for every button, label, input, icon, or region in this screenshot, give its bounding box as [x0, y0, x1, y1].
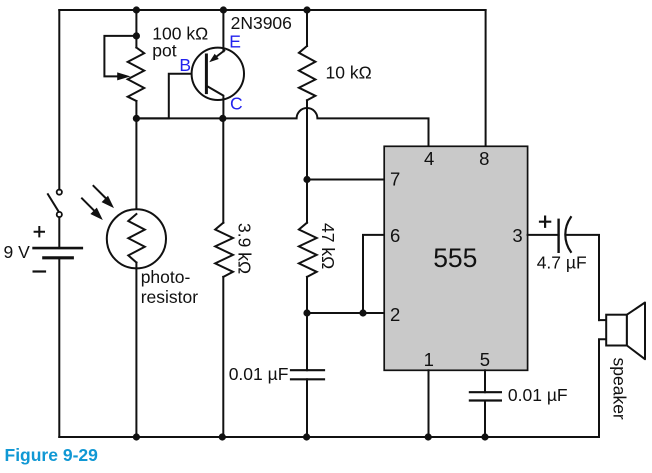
- node pin 2: [303, 309, 310, 316]
- svg-text:0.01 µF: 0.01 µF: [508, 385, 568, 405]
- pot wiper wire: [104, 36, 136, 77]
- potentiometer R1 100k zigzag: [128, 48, 145, 102]
- wire bottom rail: [59, 436, 599, 438]
- wire C3 to speaker: [567, 235, 599, 320]
- node bottom C2: [481, 433, 488, 440]
- battery plus sign: [35, 227, 44, 236]
- switch S1: [48, 190, 62, 218]
- wire pot bottom: [135, 101, 137, 118]
- svg-text:8: 8: [479, 148, 489, 169]
- wire switch to battery: [58, 217, 60, 248]
- speaker lower stub and wire to bottom rail: [599, 339, 606, 437]
- svg-text:47 kΩ: 47 kΩ: [318, 223, 338, 269]
- capacitor C3 4.7uF left plate: [557, 220, 559, 252]
- C3 plus sign: [540, 217, 550, 227]
- transistor Q1 2N3906 circle: [192, 48, 244, 100]
- node 10k top rail: [303, 6, 310, 13]
- capacitor C2 0.01uF plates: [470, 392, 501, 400]
- svg-text:photo-: photo-: [141, 267, 191, 287]
- battery 9V plates: [34, 248, 82, 258]
- svg-text:5: 5: [480, 349, 490, 370]
- wire emitter to top rail: [222, 10, 224, 51]
- speaker body rect: [606, 315, 627, 346]
- svg-text:resistor: resistor: [141, 287, 199, 307]
- wire 10k to pin7 junction: [306, 100, 308, 179]
- wire C1 to bottom rail: [306, 379, 308, 437]
- svg-text:0.01 µF: 0.01 µF: [229, 364, 289, 384]
- wire pin 7: [307, 179, 384, 181]
- node pot bottom base: [133, 115, 140, 122]
- svg-text:B: B: [179, 55, 191, 75]
- svg-text:1: 1: [424, 349, 434, 370]
- wire pin7 junction to 47k: [306, 180, 308, 223]
- wire pin 1: [428, 370, 430, 437]
- node pin 6 tie: [359, 309, 366, 316]
- node bottom 3.9k: [219, 433, 226, 440]
- wire base network: [136, 74, 205, 119]
- resistor R4 47k zigzag: [299, 223, 317, 277]
- svg-text:speaker: speaker: [610, 358, 630, 420]
- wire pin 6: [363, 235, 384, 313]
- svg-text:pot: pot: [152, 41, 176, 61]
- wire 3.9k to bottom rail: [222, 277, 224, 437]
- svg-text:7: 7: [390, 169, 400, 190]
- wire pin 5: [484, 370, 486, 392]
- wire pin 3: [528, 234, 559, 236]
- wire battery to bottom rail: [58, 258, 60, 437]
- node bottom pin1: [425, 433, 432, 440]
- transistor collector diagonal and wire: [206, 86, 223, 119]
- svg-text:555: 555: [433, 243, 477, 273]
- wire photoresistor to bottom rail: [135, 263, 137, 438]
- svg-text:Figure 9-29: Figure 9-29: [5, 445, 99, 465]
- svg-text:2N3906: 2N3906: [231, 13, 292, 33]
- svg-text:3.9 kΩ: 3.9 kΩ: [234, 223, 254, 274]
- wire 47k to pin2 junction: [306, 277, 308, 313]
- node emitter top rail: [220, 6, 227, 13]
- wire pot top: [135, 10, 137, 48]
- svg-text:C: C: [230, 93, 243, 113]
- photoresistor circle: [107, 209, 166, 268]
- node bottom C1: [303, 433, 310, 440]
- wire 10k top: [306, 10, 308, 46]
- node collector: [219, 115, 226, 122]
- wire pin2 junction to cap C1: [306, 313, 308, 370]
- svg-text:10 kΩ: 10 kΩ: [326, 63, 372, 83]
- node bottom photoresistor: [133, 433, 140, 440]
- svg-text:6: 6: [390, 225, 400, 246]
- speaker upper stub: [599, 319, 606, 321]
- node pin 7: [303, 176, 310, 183]
- svg-text:9 V: 9 V: [4, 242, 31, 262]
- wire C2 to bottom rail: [484, 401, 486, 438]
- capacitor C1 0.01uF plates: [291, 370, 324, 379]
- wire 3.9k top: [222, 118, 224, 222]
- svg-text:4.7 µF: 4.7 µF: [537, 253, 587, 273]
- resistor R2 3.9k zigzag: [215, 223, 233, 277]
- resistor R3 10k zigzag: [299, 46, 316, 100]
- svg-text:2: 2: [390, 304, 400, 325]
- node pot wiper tie: [133, 32, 140, 39]
- wire pin 2: [307, 312, 384, 314]
- transistor base bar: [205, 55, 208, 93]
- pot wiper arrowhead: [117, 72, 130, 80]
- wire top rail: [59, 9, 485, 11]
- wire collector junction to pin4 with hop: [136, 108, 428, 146]
- photoresistor zigzag: [128, 214, 145, 263]
- light arrow 2: [82, 198, 103, 220]
- capacitor C3 4.7uF curved plate: [565, 217, 570, 252]
- svg-text:3: 3: [512, 225, 522, 246]
- transistor emitter diagonal: [217, 51, 225, 57]
- wire left rail upper: [58, 10, 60, 190]
- wire pot junction to photoresistor: [135, 118, 137, 214]
- IC U1 555 body: [384, 146, 527, 370]
- battery minus sign: [34, 270, 45, 272]
- svg-text:E: E: [229, 32, 241, 52]
- wire pin 8 drop: [485, 10, 487, 146]
- node pot top rail: [133, 6, 140, 13]
- transistor emitter arrowhead: [209, 54, 219, 62]
- speaker horn: [627, 303, 645, 360]
- light arrow 1: [94, 186, 115, 208]
- svg-text:4: 4: [424, 148, 434, 169]
